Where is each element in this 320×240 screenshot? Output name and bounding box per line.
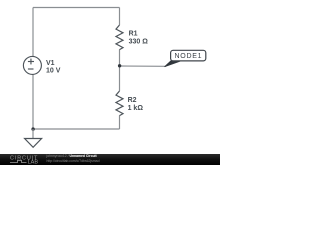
resistor R1 [116,25,123,50]
svg-text:V1: V1 [46,60,55,67]
wire right rail lower [119,116,121,129]
svg-text:330 Ω: 330 Ω [129,39,149,46]
svg-text:1 kΩ: 1 kΩ [128,105,144,112]
wire node stub [120,65,167,67]
node flag NODE1 pointer [165,61,182,67]
svg-text:LAB: LAB [28,160,39,165]
wire left rail upper [32,8,34,57]
footer logo [0,154,40,165]
ground stub [32,129,34,139]
svg-text:NODE1: NODE1 [174,53,202,60]
node flag NODE1 box [171,50,206,61]
wire top rail [33,7,120,9]
wire right rail upper [119,8,121,26]
junction node dot right [118,64,121,67]
svg-text:R1: R1 [129,31,138,38]
svg-text:10 V: 10 V [46,68,61,75]
resistor R2 [116,91,123,116]
svg-text:R2: R2 [128,97,137,104]
wire right rail middle [119,50,121,91]
footer credit line1 [47,155,97,158]
wire left rail lower [32,75,34,130]
footer bar [0,154,220,165]
footer credit line2 [47,160,100,163]
wire bottom rail [33,128,120,130]
junction node dot left [31,127,34,130]
footer logo waveform [10,161,27,163]
voltage source V1 [23,56,41,74]
ground symbol [25,139,42,148]
